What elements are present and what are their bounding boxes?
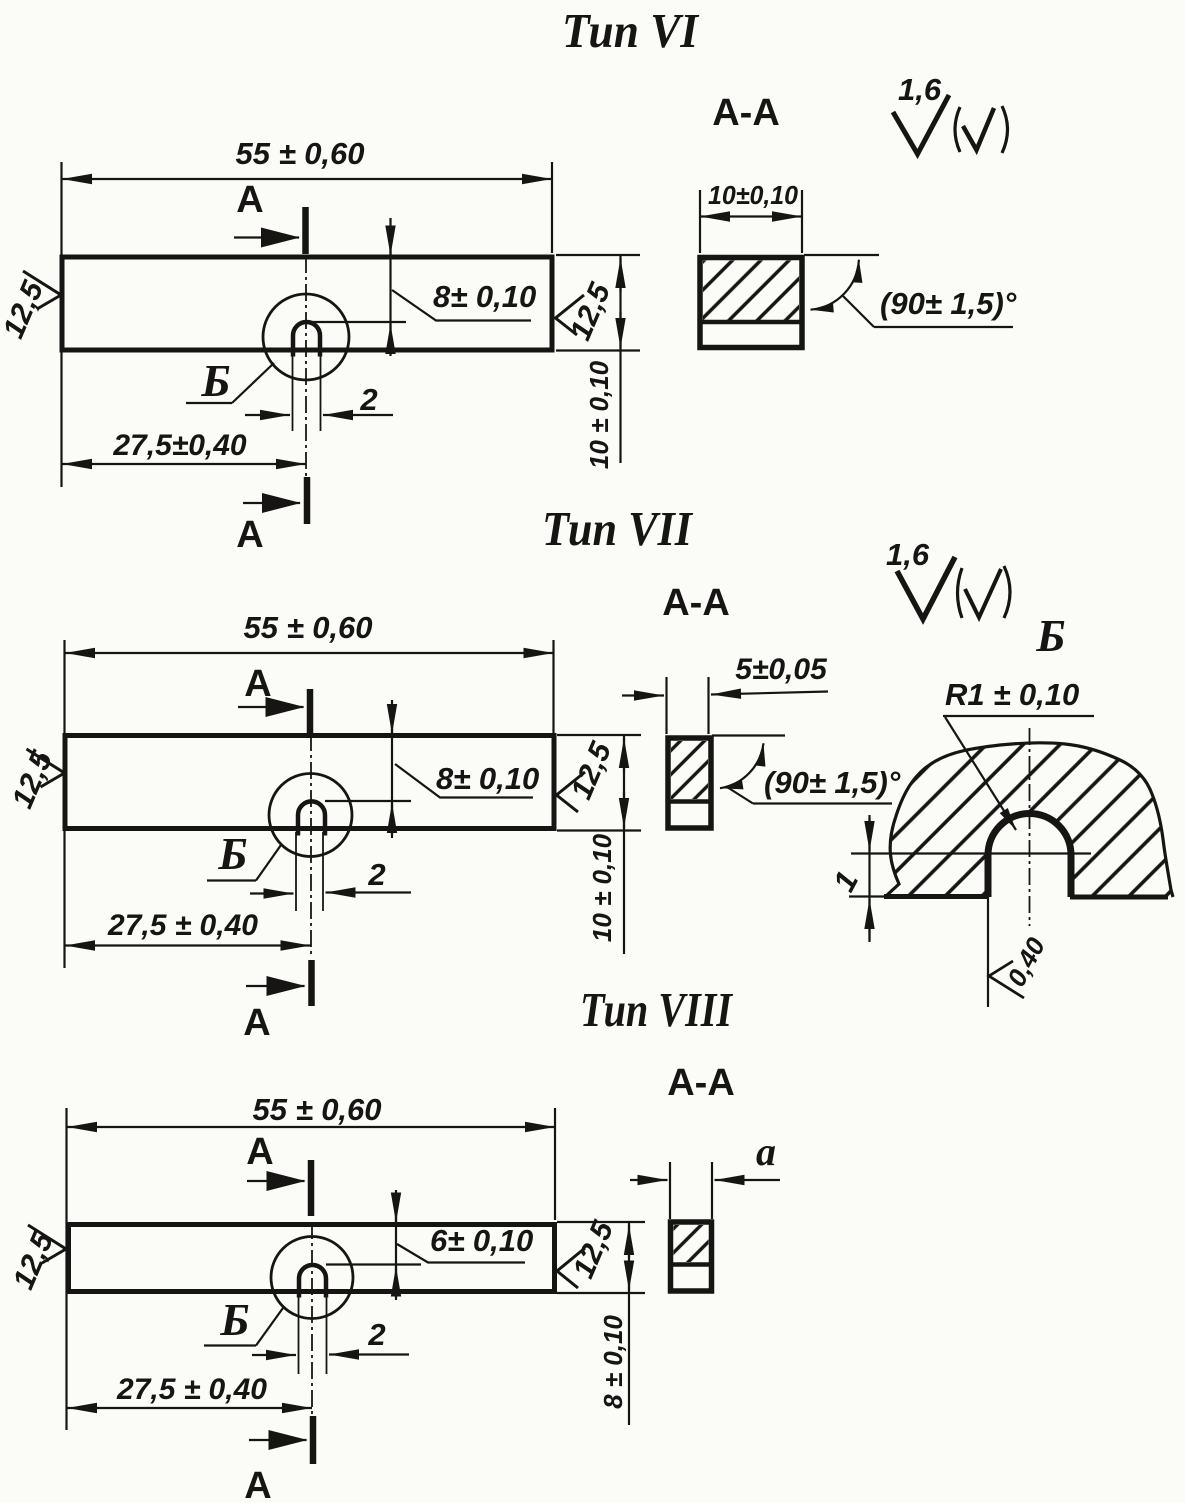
- extension line right (5 dim): [707, 677, 709, 734]
- svg-text:55 ± 0,60: 55 ± 0,60: [235, 136, 364, 171]
- extension line top right (10 dim): [556, 254, 640, 256]
- svg-text:8 ± 0,10: 8 ± 0,10: [598, 1315, 628, 1409]
- svg-text:А: А: [244, 1465, 271, 1503]
- arrow up to bar top (VIII right): [628, 1225, 630, 1258]
- roughness tick 0,40 in notch: [989, 961, 1024, 998]
- dimension 2 arrow left (VIII): [252, 1354, 296, 1356]
- dimension 2 arrow left: [245, 414, 290, 416]
- extension line right (55 dim): [551, 162, 553, 253]
- extension line bottom right (8 dim, VIII): [557, 1292, 645, 1294]
- svg-text:12,5: 12,5: [7, 1226, 61, 1294]
- svg-text:Б: Б: [200, 355, 230, 406]
- hatched area (cut material): [703, 261, 799, 321]
- hatched area (section VII): [671, 741, 708, 799]
- dimension line 27,5 ± 0,40 (VII): [65, 944, 311, 946]
- svg-text:А: А: [236, 514, 263, 556]
- svg-text:А-А: А-А: [662, 582, 730, 624]
- svg-text:1,6: 1,6: [886, 537, 930, 572]
- leader shelf R1: [943, 715, 1094, 717]
- parenthesis left of (√) VII: [958, 568, 963, 618]
- section arrow A top (VII): [238, 706, 304, 708]
- small check mark (√): [963, 108, 994, 150]
- arrow up to notch top (VII): [391, 803, 393, 834]
- svg-text:1: 1: [826, 865, 865, 897]
- extension line left (section VI dim): [699, 190, 701, 253]
- centerline of detail Б: [1029, 728, 1031, 926]
- dimension text 8 ± 0,10 rotated (VIII): [598, 1315, 628, 1409]
- svg-text:А-А: А-А: [667, 1062, 735, 1104]
- extension line top right (8 dim, VIII): [557, 1221, 645, 1223]
- slot extension line left (VII): [295, 832, 297, 911]
- parenthesis right of (√) VII: [1004, 566, 1010, 618]
- leader line Б to circle: [232, 363, 274, 403]
- roughness text right 12,5 (VII): [565, 736, 619, 804]
- parenthesis right of (√): [1002, 106, 1008, 153]
- extension line left (55 dim, VII): [63, 640, 65, 968]
- angle arc (90±1,5)° VII: [720, 743, 764, 788]
- slot extension line right: [320, 353, 322, 431]
- extension line of top face (angle dim): [804, 254, 879, 256]
- hatched area (section VIII): [674, 1225, 709, 1262]
- dimension line 55 ± 0,60 (VII): [65, 652, 554, 654]
- notch top extension line: [311, 321, 406, 323]
- dimension text 10 ± 0,10 (rotated): [584, 360, 614, 469]
- extension line top right (10 dim, VII): [557, 734, 641, 736]
- arrow down to bar top (VIII): [395, 1194, 397, 1223]
- svg-text:2: 2: [367, 1317, 385, 1352]
- parenthesis left of (√): [955, 107, 960, 152]
- leader diagonal: [843, 296, 874, 327]
- leader with shelf for 8± 0,10 (VII): [395, 764, 533, 798]
- slot extension line left (VIII): [298, 1294, 300, 1374]
- section trace A top (VII): [307, 689, 314, 733]
- svg-text:12,5: 12,5: [565, 736, 619, 804]
- extension line bottom right (10 dim): [556, 349, 640, 351]
- check mark of roughness symbol VII: [897, 557, 955, 619]
- dimension 2 arrow right: [323, 414, 393, 416]
- notch top extension line (VII): [325, 800, 411, 802]
- slot extension line right (VIII): [326, 1294, 328, 1374]
- extension line left (a dim): [669, 1162, 671, 1219]
- svg-text:8± 0,10: 8± 0,10: [433, 279, 536, 314]
- svg-text:(90± 1,5)°: (90± 1,5)°: [764, 765, 901, 800]
- angle arc (90±1,5)° with arrows: [811, 260, 859, 310]
- svg-text:55 ± 0,60: 55 ± 0,60: [243, 610, 372, 645]
- leader Б to circle (VII): [256, 845, 281, 881]
- dimension 2 arrow right (VII): [326, 891, 412, 893]
- svg-text:А-А: А-А: [712, 92, 780, 134]
- check mark of roughness symbol: [893, 95, 949, 154]
- dimension line 10 ± 0,10 vertical (VII): [623, 735, 625, 954]
- svg-text:2: 2: [359, 382, 377, 417]
- leader shelf angle text VII: [753, 802, 892, 804]
- roughness tick right 12,5 (VIII): [557, 1248, 585, 1288]
- internal line (notch level, VIII): [671, 1262, 712, 1267]
- section square outline (Тип VI cross-section): [700, 258, 802, 348]
- dimension 2 arrow left (VII): [250, 892, 294, 894]
- svg-text:a: a: [756, 1129, 776, 1174]
- svg-text:27,5 ± 0,40: 27,5 ± 0,40: [116, 1373, 267, 1406]
- dimension 2 arrow right (VIII): [329, 1353, 409, 1355]
- section trace A top (VIII): [308, 1160, 315, 1216]
- extension line right (55 dim, VIII): [554, 1108, 556, 1220]
- extension line left (55 dim): [60, 162, 62, 487]
- svg-text:Б: Б: [217, 828, 247, 879]
- underline of Б: [186, 402, 232, 404]
- arrow up to notch top: [389, 324, 391, 352]
- roughness text right 12,5: [564, 277, 618, 345]
- svg-text:0,40: 0,40: [1001, 932, 1051, 991]
- small check mark (√) VII: [965, 569, 1001, 618]
- extension of top face (angle dim VII): [712, 734, 785, 736]
- detail circle Б (Тип VII): [269, 774, 352, 857]
- notch slot (Тип VII): [298, 801, 325, 835]
- svg-text:А: А: [243, 1002, 270, 1044]
- arrow down to bar bottom (VIII right): [628, 1262, 630, 1291]
- dimension a arrow left: [630, 1179, 668, 1181]
- roughness tick right 12,5 (VII): [557, 772, 586, 812]
- svg-text:Тип VIII: Тип VIII: [580, 982, 734, 1037]
- dimension a arrow right: [715, 1179, 781, 1181]
- notch slot (Тип VIII): [299, 1265, 326, 1298]
- leader shelf for angle text: [874, 326, 1013, 328]
- surface extension line left (dim 1): [849, 895, 886, 897]
- centerline of notch (VIII): [311, 1222, 313, 1416]
- notch slot (U-shaped, Тип VI): [293, 322, 320, 357]
- section arrow A (bottom): [243, 502, 300, 504]
- arrow down to bar bottom: [619, 312, 621, 348]
- dimension line 55 ± 0,60 (VIII): [67, 1126, 555, 1128]
- dimension line 1 (vertical): [868, 815, 870, 942]
- svg-text:Тип VII: Тип VII: [542, 501, 694, 556]
- dimension text 10 ± 0,10 rotated (VII): [587, 833, 617, 942]
- svg-text:А: А: [246, 1131, 273, 1173]
- extension line right (55 dim, VII): [552, 640, 554, 733]
- svg-text:Б: Б: [1035, 610, 1065, 661]
- dimension line 27,5±0,40: [62, 463, 306, 465]
- detail Б bottom surface left: [884, 894, 989, 899]
- dimension line 6±0,10 vertical (VIII): [395, 1190, 397, 1300]
- dimension 5 arrow left: [622, 694, 664, 696]
- section rectangle outline (Тип VII cross-section): [668, 738, 711, 828]
- svg-text:8± 0,10: 8± 0,10: [436, 761, 539, 796]
- arrow down to bar bottom (VII right): [623, 792, 625, 828]
- slot extension line left: [292, 353, 294, 431]
- roughness text right 12,5 (VIII): [567, 1215, 621, 1283]
- svg-text:10±0,10: 10±0,10: [708, 180, 799, 210]
- roughness text left 12,5 (VII): [6, 745, 60, 813]
- svg-text:Тип VI: Тип VI: [562, 3, 700, 58]
- roughness text left 12,5: [0, 275, 51, 343]
- notch top extension line (VIII): [326, 1263, 421, 1265]
- section arrow A bottom (VIII): [249, 1439, 307, 1441]
- section rectangle outline (Тип VIII cross-section): [671, 1222, 712, 1291]
- leader diagonal VII: [727, 787, 753, 804]
- roughness tick right 12,5: [556, 295, 585, 335]
- svg-text:А: А: [244, 663, 271, 705]
- dimension line 8±0,10 (vertical): [389, 218, 391, 356]
- svg-text:5±0,05: 5±0,05: [735, 653, 828, 686]
- extension line left (5 dim): [665, 677, 667, 734]
- leader with shelf for 6± 0,10 (VIII): [397, 1244, 525, 1263]
- left wall extension below surface: [987, 897, 989, 1007]
- svg-text:10 ± 0,10: 10 ± 0,10: [587, 833, 617, 942]
- internal line (notch level, VII): [668, 799, 711, 804]
- notch of detail Б (R1 arc and walls): [988, 814, 1071, 898]
- leader arrow R1 to notch radius: [945, 717, 1016, 830]
- arrow down to bar top edge: [389, 226, 391, 256]
- dimension line 27,5 ± 0,40 (VIII): [67, 1407, 312, 1409]
- svg-text:6± 0,10: 6± 0,10: [430, 1223, 533, 1258]
- dimension line 8 ± 0,10 vertical (VIII): [628, 1222, 630, 1425]
- slot extension line right (VII): [322, 832, 324, 911]
- internal line (notch bottom level): [700, 320, 802, 325]
- dimension line 8±0,10 vertical (VII): [391, 700, 393, 838]
- underline of Б (VIII): [204, 1344, 256, 1346]
- detail Б outer outline: [886, 743, 1173, 897]
- svg-text:55 ± 0,60: 55 ± 0,60: [252, 1092, 381, 1127]
- centerline of notch: [305, 256, 307, 477]
- extension line left (55 dim, VIII): [65, 1108, 67, 1430]
- svg-text:27,5 ± 0,40: 27,5 ± 0,40: [107, 909, 258, 942]
- section arrow A top (VIII): [247, 1180, 305, 1182]
- extension line right (section VI dim): [801, 190, 803, 253]
- detail circle Б (VIII): [271, 1237, 353, 1319]
- arrow up to bar top: [619, 258, 621, 292]
- roughness tick left 12,5: [23, 271, 61, 309]
- section trace A bottom (VII): [308, 960, 315, 1006]
- extension line bottom right (10 dim, VII): [557, 829, 641, 831]
- extension line right (a dim): [711, 1162, 713, 1219]
- centerline of notch (Тип VII): [310, 734, 312, 958]
- dimension line 10±0,10: [700, 215, 802, 217]
- detail circle Б around notch: [263, 294, 349, 380]
- section trace A bottom (VIII): [310, 1416, 317, 1464]
- roughness text 0,40 (rotated): [1001, 932, 1051, 991]
- section trace A (top): [302, 207, 309, 254]
- svg-text:А: А: [236, 179, 263, 221]
- section arrow A (top): [234, 236, 299, 238]
- section arrow A bottom (VII): [246, 985, 305, 987]
- dimension line 55 ± 0,60: [62, 178, 552, 180]
- bar body (Тип VI specimen front view): [62, 257, 552, 350]
- dimension 5 arrow right: [711, 692, 828, 695]
- svg-text:(90± 1,5)°: (90± 1,5)°: [880, 286, 1017, 321]
- roughness tick left 12,5 (VIII): [28, 1225, 66, 1263]
- section trace A (bottom): [304, 477, 311, 524]
- bar body (Тип VIII specimen front view): [69, 1225, 555, 1292]
- detail Б blob hatched body: [886, 743, 1173, 897]
- svg-text:12,5: 12,5: [0, 275, 51, 343]
- leader with shelf for 8± 0,10: [392, 290, 531, 321]
- extension line at arc center level: [851, 852, 1091, 854]
- dimension line 10 ± 0,10 (vertical right): [619, 255, 621, 463]
- leader Б to circle (VIII): [256, 1308, 283, 1346]
- arrow down to bar top (VII): [391, 706, 393, 734]
- roughness text left 12,5 (VIII): [7, 1226, 61, 1294]
- underline of Б (VII): [207, 879, 256, 881]
- svg-text:27,5±0,40: 27,5±0,40: [112, 429, 247, 462]
- arrow up to surface: [868, 899, 870, 940]
- roughness tick left 12,5 (VII): [27, 749, 65, 787]
- detail Б bottom surface right: [1070, 895, 1168, 900]
- svg-text:1,6: 1,6: [898, 72, 942, 107]
- svg-text:10 ± 0,10: 10 ± 0,10: [584, 360, 614, 469]
- bar body (Тип VII specimen front view): [65, 736, 554, 829]
- svg-text:12,5: 12,5: [567, 1215, 621, 1283]
- svg-text:R1 ± 0,10: R1 ± 0,10: [945, 677, 1079, 712]
- arrow up to bar top (VII right): [623, 738, 625, 772]
- svg-text:Б: Б: [219, 1294, 249, 1345]
- arrow down to arc-center line: [868, 818, 870, 851]
- arrow up to notch top (VIII): [395, 1267, 397, 1298]
- dimension text 1 (rotated): [826, 865, 865, 897]
- svg-text:2: 2: [367, 857, 385, 892]
- svg-text:12,5: 12,5: [564, 277, 618, 345]
